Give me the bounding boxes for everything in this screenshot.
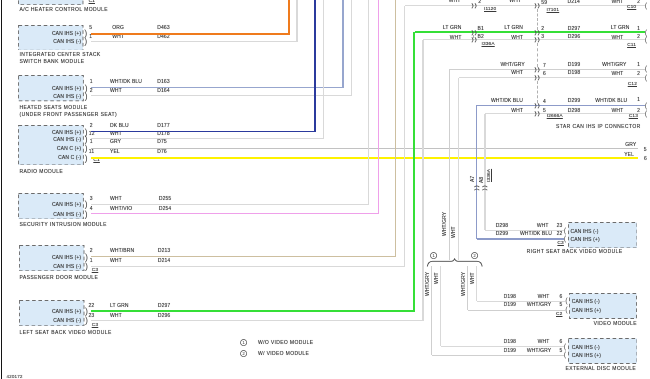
label D214	[568, 0, 580, 5]
wire WHT D296 vertical	[422, 40, 423, 320]
pin bracket radio pin 11	[85, 153, 88, 164]
dashed connector link line	[537, 81, 538, 103]
connector bracket C11 pin1	[645, 29, 647, 38]
label GRY	[110, 140, 121, 145]
pin 2	[90, 249, 93, 254]
wire WHT/GRY vertical to brace	[449, 69, 450, 260]
label WHT	[342, 36, 462, 41]
label D199	[504, 303, 516, 308]
label WHT	[110, 132, 122, 137]
label D297	[158, 304, 170, 309]
connector C11 label	[516, 44, 636, 49]
wire WHT/GRY to C12 pin 1	[450, 69, 646, 70]
pin A8 (I336A)	[480, 177, 485, 183]
inline connector pin 6	[534, 75, 541, 81]
inline connector I7101 pin 59	[534, 3, 541, 9]
label WHT	[110, 197, 122, 202]
pin 2	[541, 27, 544, 32]
pin bracket ICS pin 1	[84, 36, 87, 47]
inline connector I336A pin A7	[474, 184, 480, 191]
pin 2 (C12)	[520, 72, 640, 77]
dashed connector link line	[537, 9, 538, 30]
label WHT	[112, 35, 124, 40]
label D298	[568, 109, 580, 114]
module box: heated seats module	[18, 75, 84, 101]
label WHT/VIO	[110, 207, 132, 212]
wire WHT D178 (radio CAN IHS -)	[91, 138, 325, 139]
figure number 420172	[7, 375, 23, 379]
label WHT	[403, 36, 523, 41]
wire WHT D198 to video pin 6	[477, 301, 566, 302]
label WHT/DK BLU	[403, 99, 523, 104]
wire LT GRN D297 (LSBV CAN IHS +)	[91, 310, 416, 312]
label WHT vertical	[452, 226, 457, 238]
wire GRY D75 (radio CAN C +)	[91, 148, 639, 149]
label D296	[158, 314, 170, 319]
pin 11	[89, 150, 94, 155]
pin bracket LSBV pin 22	[85, 306, 88, 317]
wire WHT/DK BLU D163 vertical	[342, 0, 343, 88]
pin 1	[89, 35, 92, 40]
pin B1 (I336A)	[478, 27, 484, 32]
inline connector pin 7	[534, 67, 541, 73]
wire LT GRN D297 vertical	[413, 32, 415, 311]
pin bracket video pin 6	[565, 297, 567, 306]
label WHT	[403, 109, 523, 114]
label WHT	[110, 259, 122, 264]
label LT GRN	[403, 26, 523, 31]
label WHT	[401, 0, 521, 4]
connector I2666A label	[547, 115, 563, 120]
label D198	[568, 71, 580, 76]
connector C13 label	[518, 115, 638, 120]
pin 12	[89, 132, 95, 137]
pin 1	[90, 140, 93, 145]
brace (wiring option split)	[426, 258, 484, 268]
module box: radio module	[18, 125, 84, 166]
label YEL	[110, 150, 120, 155]
wire ORG D463 (ICS CAN IHS +)	[91, 33, 290, 35]
wire WHT D462 vertical	[296, 0, 297, 42]
module box: A/C heater control module (partial)	[18, 0, 84, 5]
label LEFT SEAT BACK VIDEO MODULE	[20, 331, 112, 336]
label D198	[504, 295, 516, 300]
label D76	[157, 150, 167, 155]
wire WHT/GRY D199 to video pin 5	[468, 310, 566, 311]
connector C10 label	[516, 6, 636, 11]
module box: external disc module	[568, 338, 638, 364]
label WHT/DK BLU right	[507, 99, 627, 104]
wire WHT vertical (w/o video) to ext disc pin 6	[440, 266, 441, 346]
label D462	[157, 35, 169, 40]
label UNDER FRONT PASSENGER SEAT	[20, 113, 118, 118]
inline connector pin 4	[534, 103, 541, 109]
label WHT/GRY	[405, 63, 525, 68]
connector bracket C13 pin2	[645, 110, 647, 119]
wire WHT D255 (security CAN IHS +)	[91, 204, 369, 205]
label INTEGRATED CENTER STACK	[20, 53, 101, 58]
pin bracket radio pin 2	[85, 127, 88, 138]
pin 2	[90, 89, 93, 94]
pin 4	[543, 100, 546, 105]
pin 1	[90, 259, 93, 264]
label CAN IHS (+)	[572, 354, 601, 359]
legend W/O VIDEO MODULE	[258, 341, 314, 346]
connector I7101 label	[547, 9, 560, 14]
label STAR CAN IHS IP CONNECTOR	[556, 125, 641, 130]
wire WHT to C10 pin 2	[405, 5, 646, 6]
inline connector I336A pin A8	[482, 184, 488, 191]
legend circled 1	[240, 339, 248, 347]
label YEL right	[514, 153, 634, 158]
pin bracket security pin 4	[85, 209, 88, 220]
pin 1 (C12)	[520, 63, 640, 68]
module box: passenger door module	[19, 245, 85, 271]
pin bracket passenger door pin 2	[85, 252, 88, 263]
connector I336A label (vertical)	[488, 169, 493, 182]
wire WHT D296 (LSBV CAN IHS -)	[91, 320, 424, 321]
wire WHT/DK BLU D163	[91, 87, 344, 88]
label EXTERNAL DISC MODULE	[516, 367, 636, 372]
wire WHT D178 vertical	[323, 0, 324, 139]
wire WHT/DK BLU to C13 pin 1	[477, 105, 645, 106]
wire WHT/BRN D213 (pass door CAN IHS +)	[91, 256, 397, 257]
pin 59 (I7101)	[541, 1, 547, 6]
connector bracket C12 pin1	[645, 65, 647, 74]
pin bracket heated seats pin 1	[85, 83, 88, 94]
pin 22	[89, 304, 95, 309]
label WHT/DK BLU	[110, 80, 142, 85]
pin A7 (I336A)	[471, 176, 476, 182]
label WHT	[403, 71, 523, 76]
label D178	[157, 132, 169, 137]
legend circled 2	[240, 350, 248, 358]
label WHT/GRY vertical	[443, 212, 448, 236]
label D163	[157, 80, 169, 85]
label RADIO MODULE	[20, 170, 64, 175]
wire ORG D463 vertical	[288, 0, 290, 34]
circled 2 marker	[471, 252, 479, 260]
left page border	[1, 0, 2, 379]
pin 5	[442, 349, 562, 354]
label CAN IHS (+)	[571, 238, 600, 243]
pin 3	[541, 35, 544, 40]
connector bracket C11 pin2	[645, 36, 647, 45]
pin 2 (C10)	[520, 0, 640, 5]
label LT GRN	[110, 304, 129, 309]
label WHT	[110, 314, 122, 319]
pin bracket ext disc pin 6	[564, 343, 566, 352]
label D299	[568, 99, 580, 104]
label D213	[158, 249, 170, 254]
label D199	[568, 63, 580, 68]
pin 23	[89, 314, 95, 319]
label A/C HEATER CONTROL MODULE	[20, 8, 109, 13]
pin 6 (CAN C - off-page)	[644, 157, 647, 162]
label D198	[504, 340, 516, 345]
label WHT right	[503, 36, 623, 41]
label D177	[157, 124, 169, 129]
label SECURITY INTRUSION MODULE	[20, 223, 107, 228]
pin bracket ICS pin 5	[84, 28, 87, 39]
pin bracket LSBV pin 23	[85, 315, 88, 326]
wire WHT/GRY vertical (w/ video) to video pin 5	[467, 266, 468, 310]
label WHT	[429, 295, 549, 300]
connector C3 label (RSBV)	[444, 242, 564, 247]
connector C2 label (video)	[442, 313, 562, 318]
wire WHT D164	[91, 95, 352, 96]
label WHT/GRY	[431, 303, 551, 308]
circled 1 marker	[430, 252, 438, 260]
label D299	[496, 232, 508, 237]
wire YEL D76 (radio CAN C -)	[91, 157, 639, 159]
pin 6	[442, 295, 562, 300]
legend W/ VIDEO MODULE	[258, 352, 309, 357]
label WHT/GRY vertical	[426, 272, 431, 296]
pin 22	[442, 232, 562, 237]
wire WHT/VIO D254 vertical	[378, 0, 380, 214]
inline connector pin 5	[534, 111, 541, 117]
label WHT	[110, 89, 122, 94]
pin 2 (I1120)	[478, 0, 481, 5]
label CAN IHS (-)	[572, 346, 600, 351]
wire WHT D462 (ICS CAN IHS -)	[91, 41, 298, 42]
pin 1 (C11)	[520, 27, 640, 32]
label GRY right	[516, 143, 636, 148]
wire WHT/GRY D199 to ext disc pin 5	[432, 355, 564, 356]
module box: integrated center stack switch bank module	[18, 25, 84, 51]
pin 2 (C11)	[520, 35, 640, 40]
label VIDEO MODULE	[517, 322, 637, 327]
label CAN IHS (-)	[571, 230, 599, 235]
label CAN IHS (-)	[572, 300, 600, 305]
pin 2 (C13)	[520, 109, 640, 114]
pin bracket ext disc pin 5	[564, 351, 566, 360]
label HEATED SEATS MODULE	[20, 106, 88, 111]
pin bracket heated seats pin 2	[85, 91, 88, 102]
pin bracket video pin 5	[565, 306, 567, 315]
inline connector pin 3	[534, 37, 541, 43]
label SWITCH BANK MODULE	[20, 60, 85, 65]
wire WHT vertical to brace	[458, 78, 459, 260]
label PASSENGER DOOR MODULE	[20, 276, 99, 281]
pin 7	[543, 64, 546, 69]
inline connector I1120 pin 2	[471, 3, 478, 9]
wire WHT vertical (w/ video) to video pin 6	[476, 266, 477, 301]
wire WHT to C11 pin 2	[423, 39, 645, 40]
pin 1	[90, 80, 93, 85]
pin 2	[90, 124, 93, 129]
pin 3	[90, 197, 93, 202]
wire WHT D214 vertical	[404, 6, 405, 266]
pin bracket passenger door pin 1	[85, 261, 88, 272]
dashed connector link line	[537, 43, 538, 67]
pin 6	[543, 72, 546, 77]
label D296	[568, 35, 580, 40]
label WHT	[429, 224, 549, 229]
connector C12 label	[517, 83, 637, 88]
connector bracket C13 pin1	[645, 102, 647, 111]
label WHT/GRY vertical	[462, 272, 467, 296]
connector I336A label	[482, 43, 495, 48]
pin bracket RSBV pin 23	[564, 227, 566, 236]
label D254	[159, 207, 171, 212]
wire WHT D255 vertical	[368, 0, 369, 204]
label D164	[157, 89, 169, 94]
module box: video module	[569, 293, 637, 319]
inline connector pin 2	[534, 30, 541, 36]
label WHT/GRY	[431, 349, 551, 354]
svg-text:1: 1	[242, 340, 245, 345]
pin bracket security pin 3	[85, 199, 88, 210]
pin 4	[90, 207, 93, 212]
label WHT/BRN	[110, 249, 134, 254]
label D255	[159, 197, 171, 202]
connector C1 label (radio)	[93, 159, 99, 164]
pin 23	[442, 224, 562, 229]
wire WHT/VIO D254 (security CAN IHS -)	[91, 213, 380, 215]
label WHT vertical	[471, 273, 476, 285]
label D298	[496, 224, 508, 229]
label LT GRN right	[510, 26, 630, 31]
connector C3 label (left seat back video)	[92, 324, 98, 329]
label DK BLU	[110, 124, 129, 129]
wire LT GRN to C11 pin 1	[415, 31, 645, 33]
wire WHT/GRY vertical (w/o video) to ext disc pin 5	[431, 266, 432, 355]
module box: security intrusion module	[18, 193, 84, 220]
pin 6	[442, 340, 562, 345]
connector I1120 label	[484, 8, 496, 13]
label D297	[568, 27, 580, 32]
wire DK BLU D177 vertical	[314, 0, 316, 132]
pin bracket RSBV pin 22	[564, 235, 566, 244]
svg-text:2: 2	[242, 351, 245, 356]
label LT GRN	[342, 26, 462, 31]
connector bracket C10	[645, 2, 647, 11]
inline connector I336A pin B1	[471, 30, 478, 36]
label WHT right	[503, 109, 623, 114]
label RIGHT SEAT BACK VIDEO MODULE	[503, 250, 623, 255]
label WHT right	[503, 72, 623, 77]
label D463	[157, 26, 169, 31]
label WHT vertical	[435, 273, 440, 285]
wire WHT D298 to RSBV pin 23	[485, 230, 564, 231]
label D199	[504, 349, 516, 354]
wire WHT D198 to ext disc pin 6	[441, 346, 564, 347]
pin 1 (C13)	[520, 98, 640, 103]
pin 5	[442, 303, 562, 308]
label ORG	[112, 26, 124, 31]
module box: right seat back video module	[568, 222, 638, 249]
wire WHT to C12 pin 2	[459, 77, 646, 78]
pin B2 (I336A)	[478, 35, 484, 40]
inline connector I336A pin B2	[471, 37, 478, 43]
wire DK BLU D177 (radio CAN IHS +)	[91, 131, 316, 133]
wire WHT/DK BLU vertical	[476, 105, 477, 239]
dashed connector link line (B1-B2)	[473, 35, 474, 38]
wire WHT D164 vertical	[351, 0, 352, 96]
label WHT/GRY right	[507, 63, 627, 68]
pin 5 (CAN C + off-page)	[644, 148, 647, 153]
wire WHT D214 (pass door CAN IHS -)	[91, 266, 406, 267]
pin bracket radio pin 1	[85, 143, 88, 154]
connector C3 label (passenger door)	[92, 269, 98, 274]
label WHT	[429, 340, 549, 345]
label D75	[157, 140, 167, 145]
pin 5	[543, 109, 546, 114]
wire WHT/DK BLU D299 to RSBV pin 22	[477, 238, 564, 240]
label CAN IHS (+)	[572, 309, 601, 314]
label WHT right	[503, 0, 623, 5]
wire WHT vertical	[484, 114, 485, 231]
label D214	[158, 259, 170, 264]
wire WHT/BRN D213 vertical	[395, 0, 396, 257]
pin bracket radio pin 12	[85, 134, 88, 145]
pin 5	[89, 26, 92, 31]
connector C1 label (A/C heater)	[89, 0, 95, 5]
wire WHT to C13 pin 2	[485, 113, 645, 114]
module box: left seat back video module	[19, 300, 85, 326]
connector bracket C12 pin2	[645, 74, 647, 83]
label WHT	[341, 0, 461, 4]
label WHT/DK BLU	[432, 232, 552, 237]
